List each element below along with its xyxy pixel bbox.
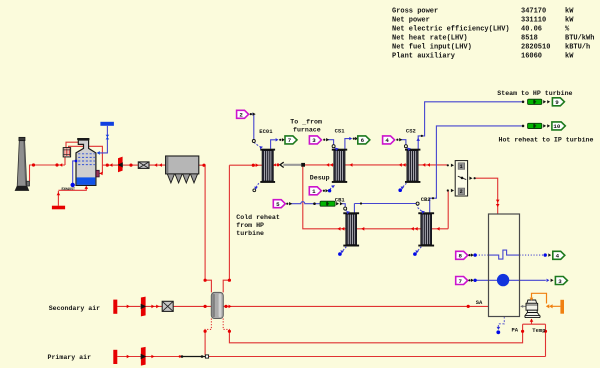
blue arrow tag1 to CS1 port xyxy=(331,185,335,188)
arrows to tag10 xyxy=(543,124,546,127)
EC01 outlet arrows xyxy=(276,138,279,141)
tag8 connector xyxy=(468,254,470,256)
svg-text:Temp: Temp xyxy=(532,327,546,334)
svg-text:6: 6 xyxy=(361,137,365,144)
tag5 connector xyxy=(286,203,288,205)
tag 7 magenta left xyxy=(456,277,468,285)
reheater CB2 column xyxy=(418,212,434,246)
dot arrow before EC01 xyxy=(252,164,255,167)
desuperheater cylinder CB1 xyxy=(320,201,335,206)
wire bottom red source riser xyxy=(58,187,86,206)
superheater CS2 column xyxy=(405,149,420,183)
svg-text:CS1: CS1 xyxy=(335,128,346,135)
wire gas downcomer from EC01 to air heater xyxy=(223,165,229,292)
svg-text:PA: PA xyxy=(512,326,519,333)
blue valve on makeup line xyxy=(106,135,110,140)
arrows before CS1 xyxy=(326,163,329,167)
svg-text:3: 3 xyxy=(312,137,316,144)
svg-text:8: 8 xyxy=(459,253,463,260)
results table xyxy=(392,8,594,61)
orange arrows from fuel bar xyxy=(546,304,550,308)
tag4 connector xyxy=(396,139,398,141)
svg-text:1: 1 xyxy=(460,164,463,170)
svg-text:Hot reheat to IP turbine: Hot reheat to IP turbine xyxy=(499,136,594,143)
svg-text:2: 2 xyxy=(460,189,463,195)
wire EC01 drain dashed xyxy=(255,183,259,188)
svg-text:Net power: Net power xyxy=(392,17,430,25)
svg-text:347170: 347170 xyxy=(521,8,546,16)
hot reheat line dot xyxy=(522,125,525,128)
svg-text:CS2: CS2 xyxy=(406,128,416,135)
drain marks CB2 xyxy=(413,252,417,256)
svg-text:EXHAUST: EXHAUST xyxy=(62,187,75,191)
air heater rotor RAH xyxy=(211,292,223,318)
tag 2 xyxy=(237,110,249,118)
wire node down to CB row xyxy=(303,167,344,229)
dots at PA temp junctions xyxy=(521,330,524,333)
wire tag4 to CS2 inlet xyxy=(401,140,406,146)
LAYER: icons xyxy=(15,99,564,365)
tag 4 green right xyxy=(553,251,565,259)
burner BRN1 xyxy=(525,300,540,318)
svg-text:CB2: CB2 xyxy=(421,196,431,203)
arrow after CS1 xyxy=(349,163,352,167)
svg-text:4: 4 xyxy=(556,253,560,260)
tag 10 green xyxy=(552,122,565,130)
secondary air arrows xyxy=(127,305,130,309)
furnace water circle xyxy=(497,274,509,286)
arrows CB row left xyxy=(341,227,344,231)
svg-text:kW: kW xyxy=(565,17,574,25)
primary air source xyxy=(113,350,117,364)
tag2 connector xyxy=(250,113,252,115)
svg-text:Net fuel input(LHV): Net fuel input(LHV) xyxy=(392,44,472,52)
wire CS1 outlet to tag6 xyxy=(345,139,350,151)
svg-text:furnace: furnace xyxy=(293,126,321,133)
svg-text:Plant auxiliary: Plant auxiliary xyxy=(392,52,456,60)
CS2 outlet elbow marks xyxy=(416,138,420,141)
arrows CB row mid xyxy=(361,227,364,231)
wire splitter output to furnace top xyxy=(475,178,498,214)
arrows after CS2 xyxy=(422,163,425,167)
svg-text:CB1: CB1 xyxy=(335,196,346,203)
blue arrow into CS2 xyxy=(407,148,411,151)
svg-text:EC01: EC01 xyxy=(259,128,273,135)
svg-text:Primary air: Primary air xyxy=(48,354,92,361)
ring port CS2 inlet xyxy=(404,145,407,148)
steam pipe cylinder to tag9 xyxy=(528,99,542,104)
wire CB1 drain dashed xyxy=(342,247,347,252)
furnace FURN1 xyxy=(489,214,520,317)
CB2 riser dot xyxy=(432,197,434,199)
ring port CB1 inlet xyxy=(344,207,347,210)
primary air arrows xyxy=(127,355,130,359)
wire gray duct EC01 node xyxy=(283,164,301,166)
blue arrow into CB2 xyxy=(421,211,425,214)
svg-text:7: 7 xyxy=(288,137,292,144)
svg-text:Net electric efficiency(LHV): Net electric efficiency(LHV) xyxy=(392,26,510,34)
CS1 outlet arrows xyxy=(349,137,352,140)
wire gas line CB1 CB2 row xyxy=(343,191,448,229)
arrows to tag9 xyxy=(543,100,546,103)
svg-text:10: 10 xyxy=(553,123,560,130)
drain marks CS2 xyxy=(398,188,402,192)
arrows into furnace top xyxy=(496,200,500,203)
drain marks CB1 xyxy=(338,252,342,256)
svg-text:9: 9 xyxy=(555,99,559,106)
dot before desup cylinder xyxy=(313,202,316,205)
dot and arrow before ID fan xyxy=(106,164,109,167)
gas-gas heater GGH xyxy=(63,148,70,157)
svg-text:2820510: 2820510 xyxy=(521,44,550,52)
wire CS2 drain dashed xyxy=(402,183,407,188)
svg-text:331110: 331110 xyxy=(521,17,546,25)
svg-text:3: 3 xyxy=(558,278,562,285)
economizer EC01 column xyxy=(260,149,275,183)
arrows CB row right xyxy=(437,227,440,231)
blue arrow into EC01 xyxy=(259,146,263,149)
electrostatic precipitator ESP xyxy=(166,156,199,183)
tag1 connector xyxy=(323,190,325,192)
wire ESP outlet to downcomer xyxy=(199,165,212,292)
red slurry arrow up xyxy=(57,192,61,195)
wire air heater dotted gas left xyxy=(205,319,211,332)
wire tag5 cold reheat to CB1 desup xyxy=(291,202,320,204)
splitter output connector xyxy=(469,177,472,180)
fuel source orange bar xyxy=(560,300,564,314)
wire furnace bottom blowdown dashed xyxy=(498,317,504,328)
wire flue gas: stack to GGH xyxy=(30,157,66,181)
wire fuel orange to burner xyxy=(532,293,561,306)
white junction node xyxy=(205,355,208,358)
tag 6 green xyxy=(358,136,370,144)
svg-text:5: 5 xyxy=(276,201,280,208)
LAYER: wires xyxy=(30,102,561,357)
steam pipe cylinder to tag10 xyxy=(528,123,542,128)
crossed box damper 1 xyxy=(138,162,149,169)
blue arrow into CB1 xyxy=(346,211,350,214)
stack ST1 xyxy=(15,137,30,191)
tag 3 xyxy=(309,136,321,144)
black dots on PA black segment xyxy=(181,355,184,358)
tag 7 green xyxy=(285,136,297,144)
svg-text:1: 1 xyxy=(312,188,316,195)
wire tag2 to EC01 inlet xyxy=(251,114,254,140)
wire tag3 to CS1 inlet xyxy=(328,140,334,146)
wire primary air red from fan xyxy=(117,356,180,358)
svg-text:from HP: from HP xyxy=(236,222,264,229)
svg-text:kBTU/h: kBTU/h xyxy=(565,44,590,52)
arrows before ESP xyxy=(154,163,157,167)
scrubber FGD vessel xyxy=(76,138,99,185)
svg-text:kW: kW xyxy=(565,52,574,60)
black chevron on gray duct xyxy=(280,162,284,167)
secondary air source xyxy=(113,300,117,314)
svg-text:turbine: turbine xyxy=(236,230,264,237)
wire gas line CS1 CS2 row xyxy=(305,164,447,166)
svg-text:Gross power: Gross power xyxy=(392,8,438,16)
red dot at gray duct xyxy=(276,163,279,166)
tag 4 xyxy=(383,136,395,144)
splitter input connectors xyxy=(447,164,449,166)
ring port CB2 inlet xyxy=(416,202,419,205)
tag 5 xyxy=(273,200,285,208)
wire scrubber gas inlet from ID fan xyxy=(102,164,118,166)
gas splitter SP1 xyxy=(455,161,467,196)
svg-text:Net heat rate(LHV): Net heat rate(LHV) xyxy=(392,35,468,43)
ID fan xyxy=(118,157,123,173)
svg-text:40.06: 40.06 xyxy=(521,26,542,34)
wire burner tee xyxy=(229,319,545,343)
svg-text:SA: SA xyxy=(476,299,483,306)
wire blue scrubber recirculation xyxy=(73,161,76,184)
blue arrow into scrubber xyxy=(97,151,100,155)
blue makeup water source xyxy=(100,122,114,126)
tag 8 xyxy=(456,251,468,259)
svg-text:8518: 8518 xyxy=(521,35,538,43)
wire tag7m solid through furnace to tag3g xyxy=(476,279,546,281)
blue recirculation dot xyxy=(71,183,75,187)
steam line 9 dot xyxy=(522,101,525,104)
svg-text:To _from: To _from xyxy=(290,119,322,126)
wire air heater bottom left leg xyxy=(204,331,206,355)
arrow up into burner xyxy=(530,319,534,322)
wire secondary air xyxy=(117,305,488,307)
ring port EC01 inlet xyxy=(252,140,255,143)
LAYER: marks xyxy=(32,98,568,359)
wire air heater dotted gas right xyxy=(223,319,229,332)
gray arrow into furnace wall xyxy=(520,305,523,308)
svg-text:Desup: Desup xyxy=(310,174,330,181)
furnace line1 right marks xyxy=(544,253,547,256)
primary air fan xyxy=(141,347,147,366)
arrows after desup cylinder xyxy=(336,202,339,205)
furnace line2 right marks xyxy=(547,279,550,282)
wire gas line EC01 row xyxy=(229,164,276,166)
wire EC01 outlet to tag7 xyxy=(271,140,276,149)
wire tag1 to CS1 drain port xyxy=(330,186,333,190)
wire tag8 dotted through furnace to tag4g xyxy=(476,254,489,256)
svg-text:kW: kW xyxy=(565,8,574,16)
wire GGH around scrubber to sprayer xyxy=(69,146,103,173)
wire furnace wall to burner gray xyxy=(522,305,527,307)
furnace blowdown arrow and dot xyxy=(497,327,501,330)
svg-text:2: 2 xyxy=(239,112,243,119)
tag7m connector xyxy=(468,279,470,281)
tag 9 green xyxy=(552,98,564,106)
node dots stack line xyxy=(32,163,35,166)
tag 1 xyxy=(309,187,321,195)
dot ESP outlet xyxy=(202,164,205,167)
wire crossed box to ESP xyxy=(149,164,166,166)
tag 3 green right xyxy=(555,277,567,285)
wire blue makeup water with valve xyxy=(99,126,108,153)
svg-text:Secondary air: Secondary air xyxy=(49,305,100,312)
svg-text:7: 7 xyxy=(459,278,463,285)
crossed box damper 2 xyxy=(162,301,173,311)
black square node xyxy=(301,163,305,167)
wire CS2 outlet to steam HP line xyxy=(418,102,521,151)
arrow into sprayer xyxy=(99,172,102,176)
wire ID fan to crossed box xyxy=(123,164,139,166)
wire primary air to temp junction xyxy=(209,324,546,356)
tag3 connector xyxy=(323,139,325,141)
svg-text:Cold reheat: Cold reheat xyxy=(236,214,280,221)
wire GGH top to scrubber neck xyxy=(66,142,79,147)
wire CB1 outlet to CB2 inlet xyxy=(354,204,417,215)
wire CB2 outlet to hot reheat line xyxy=(430,126,522,214)
ring port CS1 inlet xyxy=(332,145,335,148)
secondary air fan xyxy=(141,297,147,317)
wire CB2 drain dashed xyxy=(417,247,422,252)
orange arrow into burner top xyxy=(530,298,534,301)
dots on downcomers xyxy=(204,279,207,282)
wire primary air black segment xyxy=(180,356,205,358)
CB1 outlet dot xyxy=(360,202,362,204)
blue arrow into CS1 xyxy=(335,148,339,151)
reheater CB1 column xyxy=(343,212,359,246)
wire desup cylinder to CB1 inlet xyxy=(342,204,346,208)
arrows before CS2 xyxy=(399,163,402,167)
svg-text:BTU/kWh: BTU/kWh xyxy=(565,35,594,43)
drain marks EC01 xyxy=(253,189,256,192)
dot after ID fan xyxy=(129,164,132,167)
svg-text:4: 4 xyxy=(385,137,389,144)
arrow at EC01 right xyxy=(273,163,276,166)
svg-text:Steam to HP turbine: Steam to HP turbine xyxy=(497,90,572,97)
superheater CS1 column xyxy=(332,149,347,183)
red slurry source bottom xyxy=(52,206,65,210)
svg-text:16060: 16060 xyxy=(521,52,542,60)
